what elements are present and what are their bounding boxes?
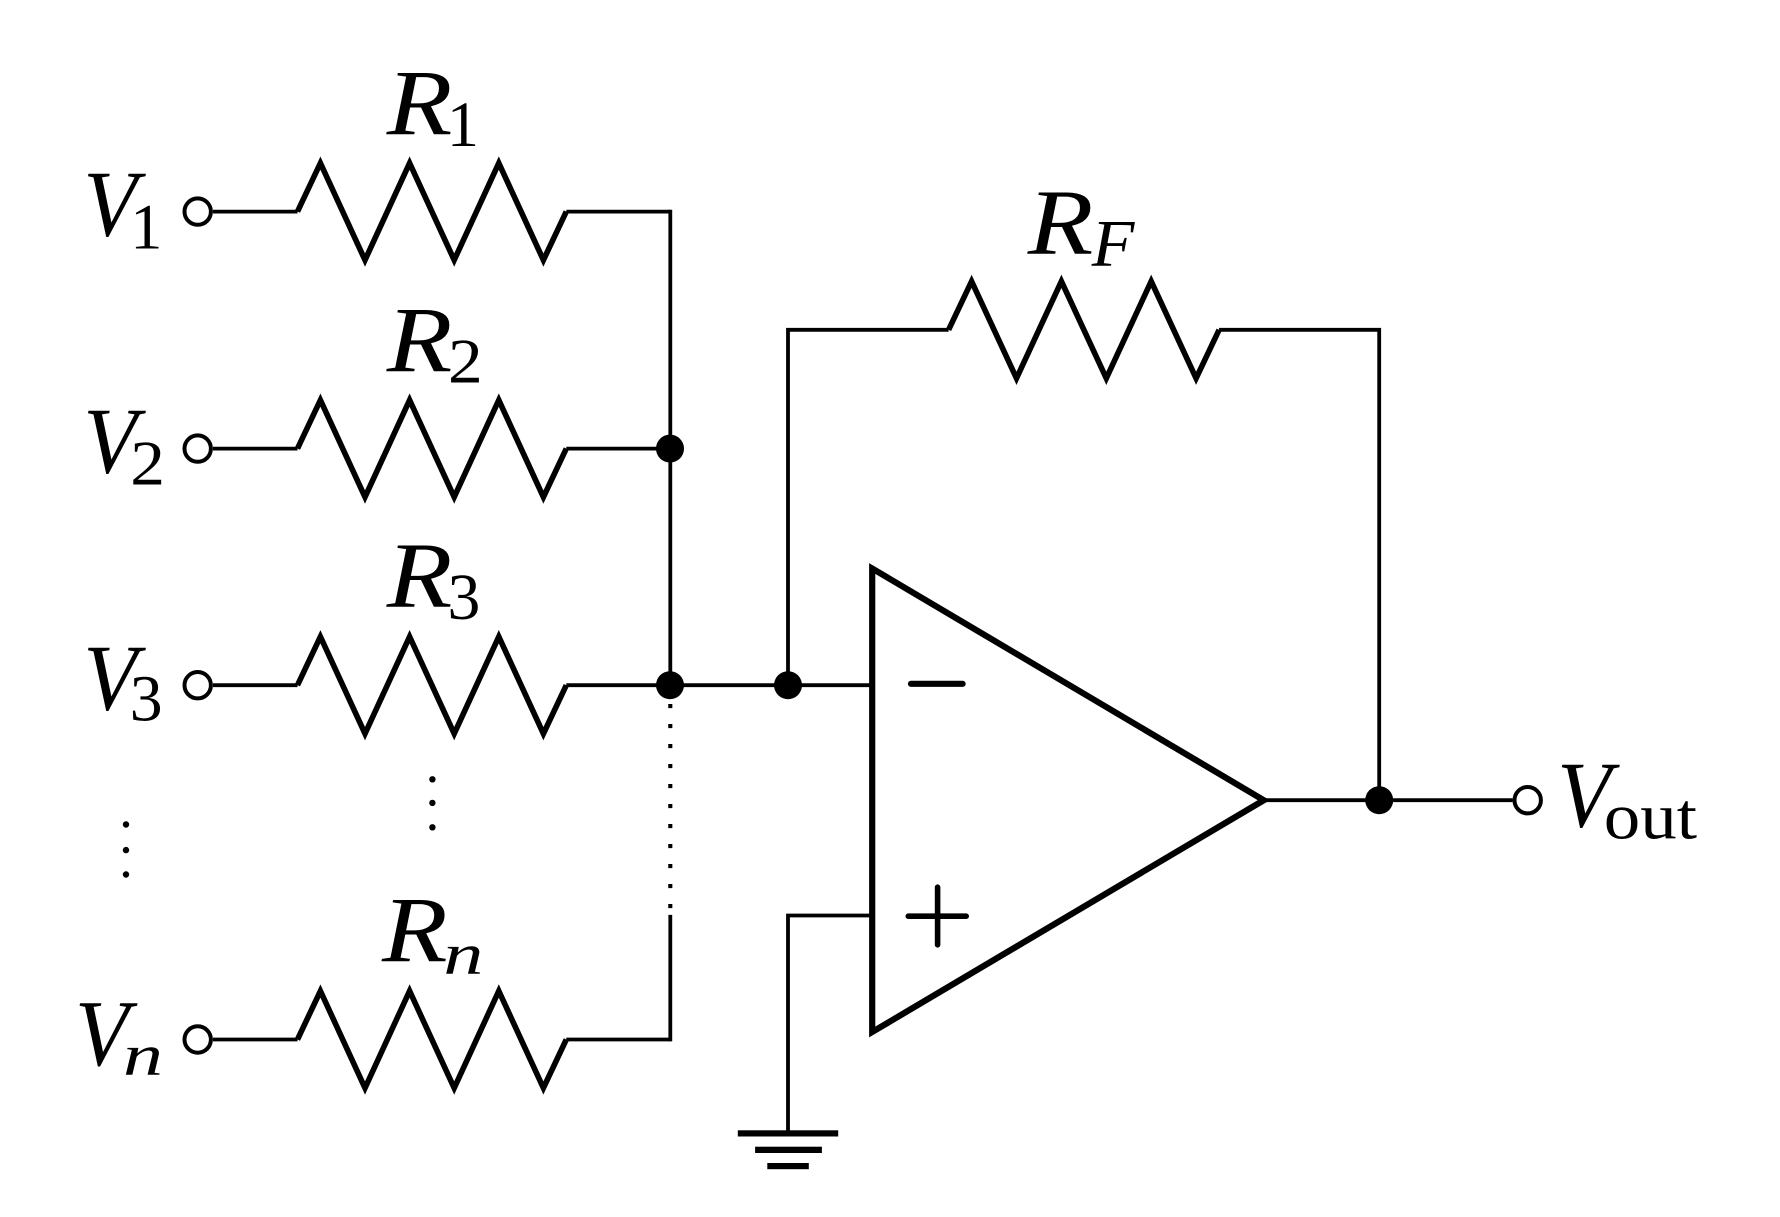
svg-text:R: R xyxy=(386,51,453,155)
wire R1 to bus xyxy=(566,210,670,214)
op-amp U1 triangle xyxy=(872,569,1264,1033)
wire bus vertical solid top xyxy=(668,210,672,686)
resistor R3 xyxy=(298,637,567,734)
svg-text:out: out xyxy=(1604,780,1697,853)
wire R2 to bus xyxy=(566,447,670,451)
wire plus input to ground xyxy=(788,916,872,1131)
svg-text:2: 2 xyxy=(448,327,483,397)
svg-text:R: R xyxy=(386,288,453,392)
wire Vn to Rn xyxy=(213,1038,298,1042)
node vdots middle between R3 and Rn xyxy=(429,776,435,782)
ground xyxy=(738,1130,838,1136)
node junction dot R2/bus xyxy=(656,435,684,463)
node V1 terminal xyxy=(185,198,211,224)
wire bus vertical solid bottom xyxy=(668,915,672,1042)
svg-text:R: R xyxy=(381,878,448,982)
op-amp minus sign xyxy=(911,681,963,687)
node junction dot R3/bus xyxy=(656,671,684,699)
svg-text:n: n xyxy=(123,1023,163,1087)
node vdots left between V3 and Vn xyxy=(123,821,129,827)
svg-text:3: 3 xyxy=(130,663,163,736)
resistor R2 xyxy=(298,400,567,497)
node junction dot feedback tap xyxy=(774,671,802,699)
node junction dot output xyxy=(1365,786,1393,814)
node V3 terminal xyxy=(185,672,211,698)
svg-text:F: F xyxy=(1091,206,1136,280)
svg-text:n: n xyxy=(443,922,483,986)
node V2 terminal xyxy=(185,435,211,461)
svg-text:2: 2 xyxy=(130,429,165,499)
wire R3 to op-amp minus input xyxy=(566,683,872,687)
wire op-amp output xyxy=(1264,798,1513,802)
op-amp plus sign xyxy=(908,913,966,919)
node Vout terminal xyxy=(1515,787,1541,813)
wire feedback tap up and to RF xyxy=(788,330,949,685)
svg-text:1: 1 xyxy=(130,192,162,263)
node Vn terminal xyxy=(185,1026,211,1052)
svg-text:R: R xyxy=(1027,170,1094,274)
wire bus dotted section xyxy=(668,704,672,908)
wire RF to output node xyxy=(1219,330,1379,800)
resistor RF xyxy=(949,281,1220,378)
wire Rn to bus xyxy=(566,1038,670,1042)
svg-text:3: 3 xyxy=(448,561,481,634)
resistor Rn xyxy=(298,991,567,1088)
svg-text:1: 1 xyxy=(447,89,479,160)
resistor R1 xyxy=(298,163,567,260)
wire V3 to R3 xyxy=(213,683,298,687)
svg-text:R: R xyxy=(386,524,453,628)
wire V1 to R1 xyxy=(213,210,298,214)
wire V2 to R2 xyxy=(213,447,298,451)
